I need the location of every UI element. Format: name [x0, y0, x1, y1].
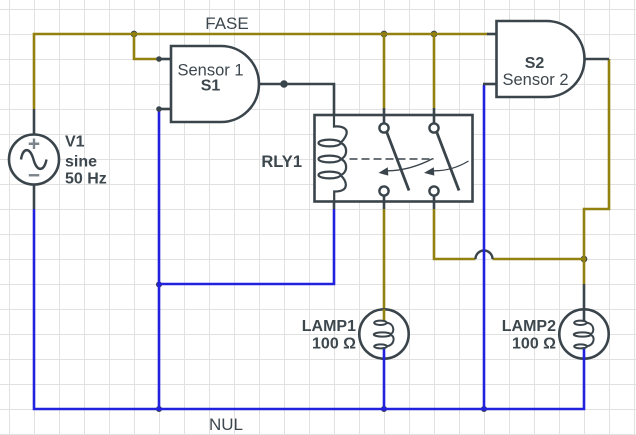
LAMP2 top lead inside	[583, 309, 586, 322]
pin V1 top	[33, 109, 36, 135]
V1 sine	[21, 150, 47, 169]
wire FASE rail (olive)	[34, 34, 609, 321]
wire S1 out to coil	[284, 84, 334, 126]
wire relay switch1 top drop	[383, 34, 386, 108]
wire switch2 bottom run with hop	[434, 209, 584, 259]
svg-text:S1: S1	[201, 78, 221, 95]
relay coil	[319, 114, 347, 203]
svg-text:NUL: NUL	[209, 415, 243, 434]
wire switch1 bottom to LAMP1	[383, 209, 386, 321]
node NUL-S2	[482, 407, 487, 412]
pin LAMP2 top	[583, 284, 586, 322]
LAMP2 bulb	[559, 309, 608, 358]
pin S2 out	[584, 58, 609, 61]
relay switch 2	[429, 123, 468, 195]
pin relay sw1 top	[383, 108, 386, 124]
node coil branch	[157, 282, 162, 287]
pin relay sw2 bottom	[433, 195, 436, 209]
dark pin segments	[34, 34, 609, 322]
node FASE-SW1	[381, 31, 387, 37]
V1 plus	[29, 139, 40, 150]
LAMP2 bottom lead inside	[583, 347, 586, 360]
wire LAMP1 bottom	[383, 346, 386, 409]
svg-text:S2: S2	[525, 55, 545, 72]
wire coil bottom branch	[159, 209, 334, 284]
svg-text:V1: V1	[65, 134, 85, 151]
node NUL-S1	[157, 407, 162, 412]
svg-text:FASE: FASE	[205, 14, 248, 33]
V1 AC source	[9, 135, 59, 185]
relay switch 1	[379, 123, 433, 195]
wire S1 input1 branch	[134, 34, 159, 59]
svg-text:Sensor 2: Sensor 2	[502, 71, 568, 89]
svg-text:sine: sine	[65, 153, 97, 170]
relay dashed line	[350, 158, 435, 160]
pin relay sw2 top	[433, 108, 436, 124]
wire S2 input2 down	[483, 85, 486, 409]
pin S2 in1	[487, 33, 497, 36]
LAMP1 top lead inside	[383, 309, 386, 322]
wire relay switch2 top drop	[433, 34, 436, 108]
LAMP1 filament	[374, 321, 394, 349]
svg-text:100 Ω: 100 Ω	[512, 336, 556, 353]
relay inside pins	[384, 114, 434, 203]
pin V1 bottom	[33, 184, 36, 209]
node junction dots blue	[157, 282, 487, 412]
node NUL-LAMP1	[382, 407, 387, 412]
pin S1 in2	[159, 108, 171, 111]
svg-text:50 Hz: 50 Hz	[65, 171, 107, 188]
wire hop over blue	[476, 251, 493, 260]
svg-text:100 Ω: 100 Ω	[312, 336, 356, 353]
pin S2 in2	[483, 83, 497, 86]
LAMP1 bulb	[359, 309, 408, 358]
V1 minus	[29, 174, 40, 176]
pin dots dark	[156, 56, 288, 112]
gate S2 Sensor 2	[497, 21, 585, 97]
node FASE-S1	[131, 31, 137, 37]
svg-text:RLY1: RLY1	[261, 153, 302, 171]
LAMP1 bottom lead inside	[383, 347, 386, 360]
pin relay sw1 bottom	[383, 195, 386, 209]
svg-text:LAMP2: LAMP2	[502, 318, 556, 335]
pin S1 in1	[159, 58, 171, 61]
pin relay coil bottom	[333, 192, 336, 209]
wire NUL rail (blue)	[34, 85, 584, 409]
pin S1 out	[259, 83, 284, 86]
LAMP2 filament	[574, 321, 594, 349]
node LAMP2 top	[581, 256, 587, 262]
wire S2 output down	[584, 59, 609, 284]
relay RLY1 box	[315, 115, 473, 202]
wire S1 input2 down	[158, 109, 161, 409]
svg-text:LAMP1: LAMP1	[302, 318, 356, 335]
node junction dots olive	[131, 31, 587, 262]
node FASE-SW2	[431, 31, 437, 37]
op-amp-style gate Sensor 1 S1	[171, 46, 259, 122]
